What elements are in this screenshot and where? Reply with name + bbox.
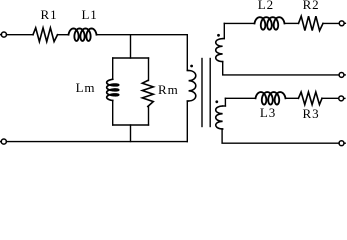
svg-text:Rm: Rm [158,82,179,97]
wire [286,97,299,99]
wire (sec2 top branch) [225,97,255,99]
wire [7,34,34,36]
winding secondary 2 [223,105,226,107]
wire [58,34,69,36]
wire (bottom rail) [6,141,187,143]
wire [112,101,114,126]
polarity dot (primary) [190,65,193,68]
inductor L3 [256,92,286,105]
resistor Rm [142,81,153,107]
inductor L2 [255,17,285,30]
winding primary [187,70,188,72]
svg-text:Lm: Lm [76,80,96,95]
wire (stem to bottom rail) [130,125,132,142]
inductor Lm [107,79,119,100]
terminal T4 (sec1 +) [339,21,344,26]
resistor R1 [33,28,58,42]
polarity dot (secondary 1) [217,34,220,37]
wire (sec1 top branch) [224,22,254,24]
resistor R2 [299,16,324,30]
wire (box top) [113,57,149,59]
wire [285,22,299,24]
wire (box bottom) [113,124,149,126]
core line right [209,59,211,127]
wire [148,107,150,126]
svg-text:R3: R3 [303,106,320,121]
wire (primary top lead) [186,35,188,71]
winding secondary 1 [223,38,225,40]
resistor R3 [298,92,322,105]
wire [148,58,150,81]
wire (sec2 bottom lead) [222,129,339,143]
wire [322,97,339,99]
wire (sec1 bottom lead) [223,62,339,75]
wire (primary bottom lead) [186,101,188,142]
core line left [201,59,203,127]
wire (sec1 top lead) [223,23,225,38]
polarity dot (secondary 2) [215,100,218,103]
svg-text:R1: R1 [41,7,58,22]
inductor L1 [69,28,97,41]
wire (stem to magnetizing branch) [130,35,132,58]
terminal T3 (sec1 -) [339,72,344,77]
terminal T6 (sec2 -) [339,141,344,146]
wire [112,58,114,79]
svg-text:L2: L2 [258,0,274,12]
wire [97,34,188,36]
terminal T1 (top-left input) [1,32,6,37]
svg-text:L3: L3 [260,105,276,120]
svg-text:L1: L1 [81,7,97,22]
terminal T2 (bottom-left input) [1,139,6,144]
svg-text:R2: R2 [303,0,320,12]
wire [323,22,339,24]
terminal T5 (sec2 +) [339,96,344,101]
wire (sec2 top lead) [224,98,226,106]
